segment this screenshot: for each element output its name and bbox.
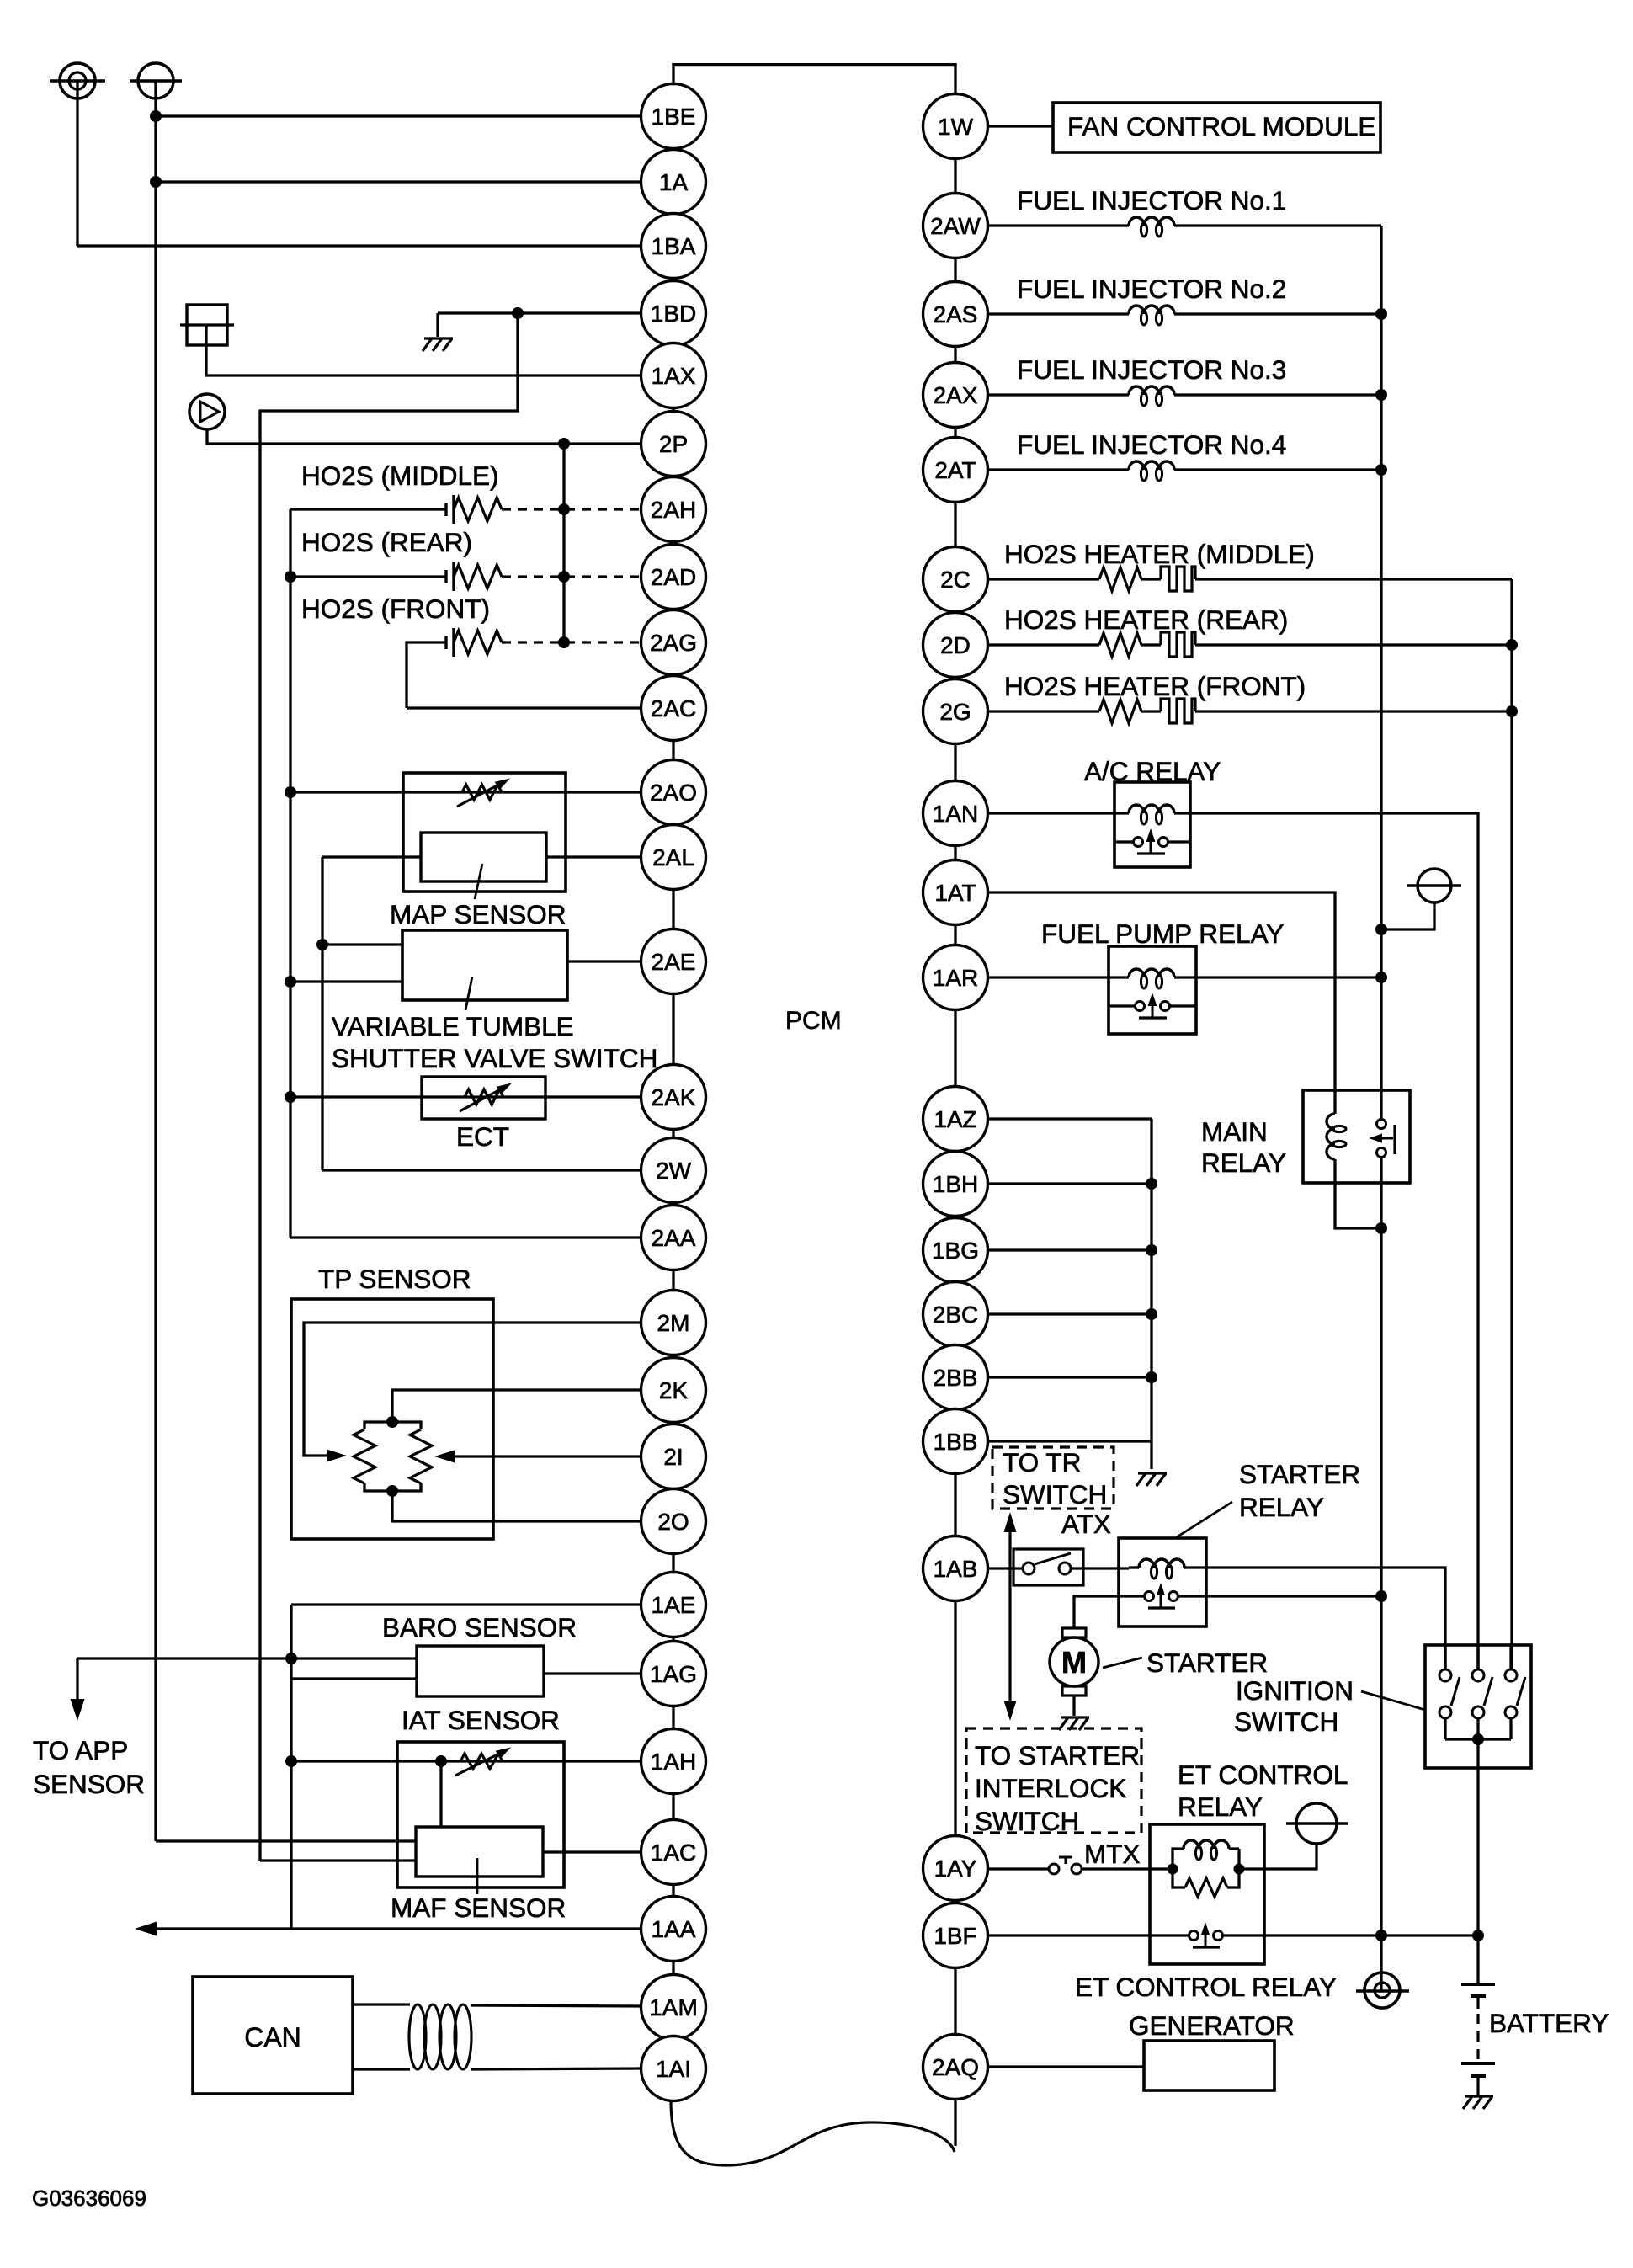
variable resistor ECT (2AK) [465, 1089, 503, 1105]
power symbol B+ (ET relay) [1296, 1803, 1337, 1844]
wire 1AZ ground bus vertical [1150, 1119, 1152, 1469]
node junction coil/bus [1375, 1222, 1387, 1234]
svg-text:1W: 1W [938, 114, 974, 140]
svg-text:2O: 2O [657, 1509, 689, 1535]
svg-text:FAN CONTROL MODULE: FAN CONTROL MODULE [1067, 111, 1375, 141]
twisted pair loops CAN [409, 2004, 426, 2069]
wire 1BH [988, 1182, 1152, 1185]
IAT sensor box [397, 1742, 564, 1887]
wire CAN low to 1AI [471, 2068, 641, 2069]
ignition switch poles [1444, 1645, 1446, 1669]
ground symbol battery [1465, 2095, 1493, 2097]
wire 2AL/2W vertical [321, 857, 323, 1170]
svg-text:2M: 2M [657, 1310, 690, 1336]
svg-text:1AR: 1AR [933, 965, 978, 991]
node junction 1BF/bus [1375, 1930, 1387, 1941]
wire MAP inner to 5V line [322, 855, 421, 858]
svg-text:MAIN: MAIN [1201, 1116, 1268, 1147]
node ET relay coil left [1168, 1864, 1178, 1875]
label pointer MAF [476, 1858, 479, 1894]
svg-text:MTX: MTX [1084, 1839, 1141, 1869]
ECT sensor box [422, 1077, 545, 1119]
wire B+ feed vertical to MAF sensor [154, 81, 157, 1841]
wire 1AE [291, 1603, 641, 1605]
svg-text:2W: 2W [656, 1158, 692, 1184]
svg-text:INTERLOCK: INTERLOCK [975, 1773, 1126, 1803]
wire bus to body ground [1380, 1935, 1382, 1990]
inductor fuel injector No.3 coil [988, 393, 1130, 396]
svg-text:HO2S (FRONT): HO2S (FRONT) [301, 594, 490, 624]
svg-text:1AA: 1AA [652, 1916, 696, 1942]
wire 1AE/1AA vertical [290, 1605, 292, 1929]
motor STARTER M [1062, 1628, 1086, 1637]
wire injector No.4 to supply bus [1174, 468, 1381, 471]
svg-text:1AC: 1AC [651, 1839, 696, 1866]
relay A/C RELAY box [1114, 782, 1190, 867]
HO2S front sensor cell and resistor [444, 636, 447, 649]
contact starter relay [1119, 1595, 1145, 1597]
node TP pot top [386, 1416, 398, 1428]
svg-text:FUEL INJECTOR No.4: FUEL INJECTOR No.4 [1017, 429, 1286, 460]
svg-text:1AE: 1AE [652, 1592, 696, 1618]
resistor HO2S HEATER (REAR) [988, 643, 1100, 646]
svg-text:2AW: 2AW [930, 213, 981, 239]
wire to APP sensor [76, 1658, 78, 1707]
wire starter relay contact to starter motor [1074, 1596, 1119, 1628]
node junction injector No.2 / bus [1375, 308, 1387, 320]
wire 2O from pot bottom [392, 1491, 641, 1521]
wire 2I into TP sensor [455, 1455, 641, 1457]
node junction bus/2AO [285, 786, 296, 798]
wire bus below main relay [1380, 1157, 1382, 1935]
label pointer starter [1103, 1658, 1142, 1668]
node junction 1BG/ground bus [1146, 1244, 1157, 1256]
node junction bus/2AD dashed [558, 571, 570, 583]
svg-text:SWITCH: SWITCH [1003, 1479, 1107, 1509]
svg-text:1BF: 1BF [934, 1923, 976, 1949]
svg-text:2AO: 2AO [650, 780, 697, 806]
wire 1BG [988, 1248, 1152, 1251]
svg-text:1BB: 1BB [934, 1429, 978, 1455]
variable resistor inside MAP sensor (2AO) [462, 785, 502, 800]
power symbol B+ (main relay feed) [1418, 869, 1451, 902]
svg-text:2D: 2D [940, 632, 971, 658]
svg-text:TO TR: TO TR [1003, 1447, 1081, 1477]
wire 2M into TP sensor [304, 1323, 641, 1456]
node junction bus/2AH dashed [558, 503, 570, 515]
contact fuel pump relay [1109, 1004, 1135, 1007]
svg-text:2P: 2P [659, 431, 688, 457]
inductor A/C relay coil [1129, 805, 1174, 813]
node junction B+/bus [1375, 924, 1387, 935]
MAP sensor outer box [403, 773, 566, 892]
svg-text:BARO SENSOR: BARO SENSOR [382, 1612, 577, 1642]
arrow TP wiper right [434, 1451, 455, 1463]
wire injector No.3 to supply bus [1174, 393, 1381, 396]
wire symbol to 2P [207, 429, 641, 444]
svg-text:VARIABLE TUMBLE: VARIABLE TUMBLE [332, 1011, 574, 1041]
svg-text:HO2S HEATER (REAR): HO2S HEATER (REAR) [1004, 604, 1288, 635]
svg-text:2C: 2C [940, 567, 971, 593]
svg-text:IGNITION: IGNITION [1236, 1675, 1354, 1706]
generator box [1144, 2041, 1274, 2090]
wire HO2S HEATER (MIDDLE) to ignition bus [1195, 578, 1512, 580]
wire 1BD branch to MAF sensor [260, 313, 518, 1861]
node junction bus/ECT [285, 1091, 296, 1103]
label box TO STARTER INTERLOCK SWITCH (dashed) [966, 1728, 1141, 1833]
connector symbol DLC (square) for 1AX [187, 305, 227, 345]
contact ET control relay on 1BF [988, 1934, 1189, 1936]
wire 1AZ [988, 1117, 1152, 1120]
power symbol B+ feed top-left [138, 63, 173, 98]
node junction 1BF/battery line [1472, 1930, 1484, 1941]
wire left sensor supply bus vertical [289, 509, 291, 1238]
svg-text:1AI: 1AI [656, 2056, 691, 2082]
wire 1W to fan control module [988, 125, 1054, 127]
wire HO2S front solid [407, 642, 446, 708]
inductor fuel injector No.2 coil [988, 312, 1130, 315]
svg-text:ECT: ECT [456, 1121, 509, 1152]
ground symbol PCM ground bus [1138, 1472, 1167, 1474]
svg-text:2AX: 2AX [934, 382, 978, 408]
svg-text:GENERATOR: GENERATOR [1129, 2010, 1295, 2041]
relay FUEL PUMP RELAY box [1109, 946, 1196, 1034]
wire 1BB [988, 1440, 1152, 1442]
CAN module box [193, 1977, 353, 2094]
MAP sensor inner element box [421, 833, 546, 881]
wire injector No.2 to supply bus [1174, 312, 1381, 315]
wire 2AC return [407, 706, 641, 709]
node junction 2P bus [558, 438, 570, 450]
relay ET CONTROL RELAY box [1150, 1824, 1264, 1964]
wire 1AG [544, 1672, 641, 1674]
node junction 2BB/ground bus [1146, 1371, 1157, 1383]
wire 1AT to main relay coil [988, 892, 1336, 1114]
contact A/C relay [1114, 840, 1133, 843]
node junction bus/VTSS lower [285, 976, 296, 988]
switch IGNITION SWITCH box [1425, 1645, 1531, 1768]
inductor fuel injector No.1 coil [988, 224, 1130, 226]
wire injector No.1 to supply bus [1174, 224, 1381, 226]
wire 2AQ to generator [988, 2065, 1145, 2068]
wire CAN high to 1AM [471, 2005, 641, 2006]
svg-text:STARTER: STARTER [1239, 1459, 1360, 1489]
ground symbol starter motor [1061, 1716, 1089, 1718]
MAF sensor box [416, 1827, 543, 1877]
svg-text:2BC: 2BC [933, 1302, 978, 1328]
svg-text:2AT: 2AT [934, 457, 976, 483]
svg-text:1BH: 1BH [933, 1171, 978, 1197]
heater element HO2S HEATER (REAR) [1141, 643, 1161, 646]
wire HO2S rear dashed to 2AD [502, 575, 641, 578]
wire PCM right connector spine [954, 126, 956, 2099]
svg-text:2G: 2G [939, 699, 971, 725]
svg-text:1AY: 1AY [934, 1855, 977, 1882]
relay STARTER RELAY box [1119, 1538, 1206, 1626]
ground symbol 1BD [424, 337, 453, 339]
wire CAN low [353, 2068, 410, 2070]
svg-text:FUEL INJECTOR No.2: FUEL INJECTOR No.2 [1017, 274, 1286, 304]
svg-text:TP SENSOR: TP SENSOR [318, 1264, 471, 1294]
svg-text:1BG: 1BG [932, 1238, 979, 1264]
svg-text:IAT SENSOR: IAT SENSOR [402, 1705, 560, 1735]
inductor main relay coil [1327, 1114, 1335, 1159]
HO2S middle sensor cell and resistor [444, 503, 447, 516]
svg-text:ATX: ATX [1061, 1509, 1111, 1539]
node junction injector No.3 / bus [1375, 389, 1387, 401]
svg-text:1AT: 1AT [934, 880, 976, 906]
wire HO2S HEATER (REAR) to ignition bus [1195, 643, 1512, 646]
svg-text:HO2S (MIDDLE): HO2S (MIDDLE) [301, 461, 499, 491]
wire ignition switch to battery [1476, 1739, 1479, 1983]
wire 1A supply [156, 180, 641, 183]
wire main relay coil to bus [1335, 1159, 1379, 1228]
wire HO2S front dashed to 2AG [502, 641, 641, 643]
svg-text:TO STARTER: TO STARTER [975, 1740, 1140, 1770]
relay MAIN RELAY box [1303, 1090, 1410, 1183]
wire BARO lower feed [291, 1677, 417, 1680]
svg-text:1AM: 1AM [649, 1994, 698, 2020]
inductor fuel pump relay coil [1129, 969, 1174, 977]
inductor fuel injector No.4 coil [988, 468, 1130, 471]
wire 1AN to A/C relay coil [988, 812, 1130, 814]
switch MTX clutch (1AY) [988, 1867, 1050, 1870]
wire 1AA [150, 1927, 641, 1930]
TP potentiometer right resistor [392, 1422, 421, 1429]
node junction 2BC/ground bus [1146, 1308, 1157, 1320]
svg-text:PCM: PCM [785, 1007, 842, 1035]
svg-text:CAN: CAN [244, 2022, 301, 2052]
wire main supply bus (injectors to main relay) [1380, 226, 1382, 1120]
wire HO2S heater bus vertical to ignition switch [1510, 579, 1513, 1670]
inductor starter relay coil [1129, 1566, 1139, 1568]
wire ignition switch output bus [1445, 1738, 1511, 1740]
svg-text:HO2S HEATER (MIDDLE): HO2S HEATER (MIDDLE) [1004, 539, 1315, 569]
svg-text:1A: 1A [659, 169, 689, 195]
contact main relay [1377, 1120, 1386, 1129]
variable tumble shutter valve switch box [402, 930, 567, 1000]
resistor HO2S HEATER (FRONT) [988, 710, 1100, 712]
wire DLC to 1AX [206, 325, 641, 375]
heater element HO2S HEATER (MIDDLE) [1141, 578, 1161, 580]
svg-text:2AG: 2AG [650, 630, 697, 656]
svg-text:2AH: 2AH [651, 497, 696, 523]
svg-text:FUEL INJECTOR No.3: FUEL INJECTOR No.3 [1017, 354, 1286, 385]
arrow 1AA to harness [135, 1922, 157, 1936]
node junction 1BD branch [512, 307, 524, 319]
wire 2BB [988, 1376, 1152, 1378]
svg-text:1AZ: 1AZ [934, 1106, 976, 1132]
svg-text:2AK: 2AK [652, 1084, 696, 1110]
node junction B+ / 1BE [150, 110, 162, 122]
resistor HO2S HEATER (MIDDLE) [988, 578, 1100, 580]
wire A/C relay coil to ignition switch [1174, 813, 1478, 1670]
svg-text:TO APP: TO APP [33, 1735, 128, 1765]
wire CAN high [353, 2003, 410, 2005]
svg-text:2AC: 2AC [651, 695, 696, 721]
wire 1AB to starter relay coil [1071, 1567, 1129, 1569]
svg-text:2BB: 2BB [934, 1365, 978, 1391]
wire PCM top bus 1BE to 1W [672, 63, 674, 118]
wire HO2S middle solid [290, 508, 446, 510]
node junction 1AR/bus [1375, 972, 1387, 983]
wire PCM bottom S-curve from 1AI [671, 2100, 955, 2165]
wire 2K to pot top [392, 1390, 641, 1419]
node junction IAT internal [435, 1755, 447, 1767]
wire MAF upper feed from B+ line [156, 1839, 416, 1842]
wire starter relay coil to ignition switch [1184, 1568, 1445, 1670]
svg-text:2I: 2I [663, 1444, 683, 1470]
svg-text:2AS: 2AS [934, 301, 978, 327]
PCM connector pins left column [641, 84, 706, 149]
svg-text:BATTERY: BATTERY [1489, 2008, 1609, 2038]
wire 2AK [290, 1095, 641, 1098]
ground symbol body-ground G1 top-left [60, 63, 95, 98]
svg-text:G03636069: G03636069 [32, 2185, 146, 2211]
wire 2W [322, 1169, 641, 1171]
ground symbol body ground (bus) [1364, 1973, 1400, 2008]
node junction 1AE bus / IAT [285, 1755, 297, 1767]
svg-text:RELAY: RELAY [1239, 1492, 1324, 1522]
wire ET relay to B+ [1244, 1844, 1317, 1869]
wire 2BC [988, 1312, 1152, 1315]
wire 2P reference bus vertical [562, 444, 565, 642]
wire 2AO [290, 791, 641, 793]
wire HO2S middle dashed to 2AH [502, 508, 641, 510]
svg-text:2K: 2K [659, 1377, 689, 1403]
label box TO TR SWITCH (dashed) [992, 1447, 1114, 1509]
svg-text:RELAY: RELAY [1201, 1147, 1286, 1178]
svg-text:1BA: 1BA [652, 233, 696, 259]
inductor ET control relay coil [1173, 1849, 1184, 1869]
arrow to APP sensor [71, 1699, 85, 1721]
wire 1BD [438, 311, 641, 314]
node junction heater/ignition bus y=766 [1506, 639, 1518, 651]
svg-text:1AG: 1AG [650, 1661, 697, 1687]
arrow TP wiper left [327, 1450, 347, 1462]
label pointer MAP sensor [475, 864, 482, 899]
svg-text:SENSOR: SENSOR [33, 1769, 145, 1799]
wire fuel pump relay coil to bus [1174, 976, 1381, 978]
wire 2AL [546, 855, 641, 858]
wire MAF lower feed from 1BD branch [260, 1859, 416, 1861]
wire IAT to MAF [439, 1761, 442, 1827]
svg-text:FUEL PUMP RELAY: FUEL PUMP RELAY [1041, 918, 1284, 949]
svg-text:2AD: 2AD [651, 564, 696, 590]
svg-text:MAP SENSOR: MAP SENSOR [390, 899, 566, 929]
switch ATX park/neutral (1AB) [988, 1567, 1024, 1569]
node junction left sense bus / HO2S rear [285, 571, 296, 583]
svg-text:M: M [1061, 1645, 1087, 1680]
node junction starter relay contact / bus [1375, 1590, 1387, 1602]
node junction B+ / 1A [150, 176, 162, 188]
svg-text:2AL: 2AL [652, 844, 694, 870]
wire VTSS lower feed [290, 980, 402, 982]
wire VTSS upper feed [322, 943, 402, 945]
wire 1BD ground stub [436, 313, 439, 337]
wire MTX to ET control relay [1082, 1867, 1170, 1870]
node junction 1BH/ground bus [1146, 1178, 1157, 1190]
svg-text:FUEL INJECTOR No.1: FUEL INJECTOR No.1 [1017, 185, 1286, 216]
svg-text:SWITCH: SWITCH [1234, 1706, 1338, 1737]
resistor ET control relay [1173, 1869, 1185, 1887]
wire 2AA [290, 1236, 641, 1238]
svg-text:1BD: 1BD [651, 301, 696, 327]
svg-text:RELAY: RELAY [1178, 1792, 1263, 1822]
svg-text:1BE: 1BE [652, 104, 696, 130]
heater element HO2S HEATER (FRONT) [1141, 710, 1161, 712]
svg-text:2AQ: 2AQ [932, 2054, 979, 2080]
battery BATTERY [1461, 1983, 1495, 1986]
wire 1BA to G1 [77, 244, 641, 247]
wire 1AH [291, 1760, 641, 1762]
svg-text:1AN: 1AN [933, 801, 978, 827]
label pointer ignition switch [1361, 1691, 1425, 1710]
svg-text:HO2S (REAR): HO2S (REAR) [301, 527, 472, 557]
svg-text:MAF SENSOR: MAF SENSOR [391, 1893, 566, 1923]
svg-text:STARTER: STARTER [1146, 1648, 1268, 1678]
BARO sensor box [417, 1646, 544, 1696]
node junction 1AE bus / BARO [285, 1653, 297, 1664]
wire 1BE supply [156, 114, 641, 117]
wire 2AE [567, 960, 641, 962]
node junction injector No.4 / bus [1375, 464, 1387, 476]
svg-text:SHUTTER VALVE SWITCH: SHUTTER VALVE SWITCH [332, 1043, 657, 1073]
svg-text:HO2S HEATER (FRONT): HO2S HEATER (FRONT) [1004, 671, 1306, 701]
node junction heater/ignition bus y=845 [1506, 705, 1518, 717]
wire G1 to 1BA [76, 81, 78, 246]
svg-text:SWITCH: SWITCH [975, 1806, 1079, 1836]
svg-text:2AA: 2AA [652, 1225, 696, 1251]
svg-text:1AH: 1AH [651, 1749, 696, 1775]
node TP pot bottom [386, 1485, 398, 1497]
svg-text:1AB: 1AB [934, 1556, 978, 1582]
label pointer VTSS [465, 977, 472, 1010]
node junction ignition output [1472, 1733, 1484, 1745]
label pointer starter relay [1175, 1502, 1232, 1538]
wire BARO feed / TO APP [77, 1657, 418, 1659]
PCM connector pins right column [923, 94, 988, 159]
svg-text:2AE: 2AE [652, 949, 696, 975]
sensor symbol (circle-triangle) for 2P [189, 394, 225, 429]
svg-text:ET CONTROL: ET CONTROL [1178, 1760, 1348, 1790]
TP potentiometer left resistor [364, 1422, 392, 1429]
wire 2AQ stub below [954, 2099, 956, 2146]
wire HO2S HEATER (FRONT) to ignition bus [1195, 710, 1512, 712]
node junction vertical/VTSS upper [316, 939, 328, 950]
wire PCM left connector spine [672, 116, 674, 2068]
HO2S rear sensor cell and resistor [444, 570, 447, 583]
variable resistor IAT (1AH) [460, 1754, 503, 1769]
arrow double to TR switch / starter interlock [1008, 1520, 1011, 1711]
label FAN CONTROL MODULE [1053, 103, 1380, 152]
wire HO2S rear solid [290, 575, 446, 578]
TP sensor box [291, 1299, 493, 1539]
wire B+ to bus [1381, 902, 1434, 929]
wire 1AR to fuel pump relay coil [988, 976, 1130, 978]
node junction bus/2AG dashed [558, 636, 570, 648]
svg-text:ET CONTROL RELAY: ET CONTROL RELAY [1075, 1972, 1337, 2002]
node ET relay coil right [1234, 1864, 1245, 1875]
svg-text:1AX: 1AX [652, 363, 696, 389]
wire 1AC [543, 1850, 641, 1853]
